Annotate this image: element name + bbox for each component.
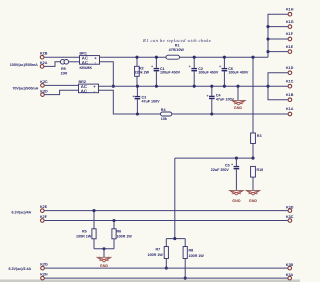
svg-text:GND: GND [234, 106, 243, 110]
node dot C4 top [210, 85, 213, 88]
connector K2C [40, 80, 48, 87]
connector K1H [286, 7, 294, 16]
heater rail 2 [44, 220, 287, 222]
connector K3A [286, 273, 294, 280]
ground below R5 R6 [97, 257, 111, 268]
wire divider node [175, 157, 253, 159]
node dot C1 top [155, 56, 158, 59]
wire stub K1E [268, 51, 288, 53]
node dot C1 bottom [155, 85, 158, 88]
node dot K1G [266, 25, 269, 28]
wire R3 to node [252, 144, 254, 159]
svg-text:K2C: K2C [40, 80, 48, 84]
svg-text:KBU8K: KBU8K [80, 66, 93, 70]
wire BR1+ to top rail left [100, 56, 167, 58]
wire node down to heater bias join [174, 158, 176, 239]
svg-text:K1F: K1F [286, 32, 294, 36]
wire bottom wire right to K1A [172, 113, 288, 115]
connector K1C [286, 79, 294, 88]
thermistor R9 [60, 60, 68, 76]
svg-text:22uF 350V: 22uF 350V [211, 168, 230, 172]
wire R7 R8 top join [166, 238, 185, 240]
svg-text:100uF 450V: 100uF 450V [160, 71, 181, 75]
svg-text:10R: 10R [61, 72, 68, 76]
node dot join [173, 237, 176, 240]
wire join to ground [103, 249, 105, 257]
svg-text:R3: R3 [257, 134, 262, 138]
heater rail 3 [45, 267, 288, 269]
svg-text:R8: R8 [189, 249, 194, 253]
node dot BR1- [112, 85, 115, 88]
svg-text:K2F: K2F [40, 215, 48, 219]
resistor R8 [183, 247, 204, 259]
node dot R5 top [92, 209, 95, 212]
wire stub K1F [268, 38, 288, 40]
wire R7 to rail3 [165, 259, 167, 269]
wire K2B to BR1 [44, 56, 79, 58]
resistor R1 [166, 43, 184, 59]
svg-text:K2B: K2B [40, 52, 48, 56]
svg-text:47R/10W: 47R/10W [169, 48, 185, 52]
wire top rail to R3 [252, 57, 254, 133]
resistor R2 [135, 57, 150, 86]
resistor R3 [251, 133, 262, 144]
connector K3C [286, 215, 294, 222]
connector K2E [40, 205, 48, 212]
wire mid rail [99, 85, 269, 87]
wire K2C to BR2 [45, 84, 79, 86]
svg-text:K2H: K2H [40, 273, 48, 277]
wire stub K1G [268, 26, 288, 28]
ground below C5 [230, 190, 244, 203]
svg-text:GND: GND [249, 199, 258, 203]
node dot R3 top [251, 56, 254, 59]
node dot C5 tap [235, 157, 238, 160]
connector K1D [286, 66, 294, 75]
svg-text:100uF 450V: 100uF 450V [198, 71, 219, 75]
svg-text:K3D: K3D [286, 205, 294, 209]
wire R10 to ground [252, 177, 254, 190]
wire stub K1C [268, 85, 288, 87]
node dot C3 top [136, 85, 139, 88]
svg-text:GND: GND [100, 264, 109, 268]
svg-text:100R 1W: 100R 1W [117, 234, 133, 238]
svg-text:R6: R6 [117, 230, 122, 234]
connector K2H [40, 273, 48, 280]
svg-text:+: + [189, 64, 191, 68]
connector K2F [40, 215, 48, 222]
svg-text:6.3V(ac)/4A: 6.3V(ac)/4A [12, 210, 32, 214]
wire BR2- down to bottom wire [99, 90, 161, 114]
node dot R8 bottom [184, 277, 187, 280]
svg-text:100R 1W: 100R 1W [189, 254, 205, 258]
connector K1B [286, 93, 294, 102]
connector K2D [40, 89, 48, 96]
svg-text:R1: R1 [175, 43, 180, 47]
bridge rectifier BR2 [79, 80, 99, 93]
resistor R7 [148, 247, 169, 259]
svg-text:47uF 100V: 47uF 100V [142, 100, 161, 104]
node dot C6 bottom [223, 85, 226, 88]
svg-text:R10: R10 [257, 168, 264, 172]
node dot R6 top [112, 219, 115, 222]
capacitor C4 [206, 86, 234, 114]
svg-text:+: + [206, 94, 208, 98]
svg-text:K3A: K3A [286, 273, 294, 277]
svg-text:K2A: K2A [40, 61, 48, 65]
wire BR1- down to mid rail [100, 62, 114, 86]
bridge rectifier BR1 [80, 52, 100, 70]
wire join to R8 [184, 239, 186, 247]
node dot C2 top [193, 56, 196, 59]
svg-text:100R 1W: 100R 1W [76, 234, 92, 238]
svg-text:K2E: K2E [40, 205, 48, 209]
svg-text:K3B: K3B [286, 263, 294, 267]
bottom gray strip [0, 280, 300, 282]
svg-text:K1B: K1B [286, 93, 294, 97]
node dot C3 bottom [136, 112, 139, 115]
svg-text:K1G: K1G [286, 20, 294, 24]
wire join to R7 [165, 239, 167, 247]
node dot R7 bottom [165, 267, 168, 270]
node dot C2 bottom [193, 85, 196, 88]
node dot K1E [266, 50, 269, 53]
right column mid group vertical wire [268, 73, 288, 100]
node dot K1C [266, 85, 269, 88]
connector K2B [40, 52, 48, 59]
wire K2D to BR2 [45, 90, 79, 94]
svg-text:R7: R7 [156, 248, 161, 252]
svg-text:K3C: K3C [286, 215, 294, 219]
svg-text:10k: 10k [161, 117, 168, 121]
svg-text:100uF 400V: 100uF 400V [228, 71, 249, 75]
node dot K1F [266, 37, 269, 40]
wire R8 to rail4 [184, 259, 186, 279]
svg-text:BR2: BR2 [79, 80, 86, 84]
connector K1A [286, 107, 294, 116]
svg-text:K1E: K1E [286, 45, 294, 49]
svg-text:+: + [151, 64, 153, 68]
right column top group vertical wire [268, 14, 288, 57]
connector K1E [286, 45, 294, 54]
ground below R10 [246, 190, 260, 203]
resistor R6 [112, 221, 132, 249]
svg-text:K1D: K1D [286, 66, 294, 70]
node dot C4 bottom [210, 112, 213, 115]
wire K2A to R9 [44, 62, 60, 67]
connector K1F [286, 32, 294, 41]
svg-text:100R 1W: 100R 1W [148, 253, 164, 257]
capacitor C1 [151, 57, 181, 86]
svg-text:AC: AC [81, 88, 87, 93]
connector K2G [40, 263, 48, 270]
resistor R4 [161, 108, 172, 121]
svg-text:BR1: BR1 [80, 52, 87, 56]
svg-text:C5: C5 [225, 163, 230, 167]
svg-text:+: + [219, 64, 221, 68]
node dot C6 top [223, 56, 226, 59]
svg-text:K2G: K2G [40, 263, 48, 267]
svg-text:R1 can be replaced with choke: R1 can be replaced with choke [142, 38, 211, 43]
svg-text:+: + [231, 162, 233, 166]
resistor R5 [76, 211, 96, 249]
connector K3D [286, 205, 294, 212]
capacitor C5 [211, 158, 239, 190]
svg-text:70V(ac)/500mA: 70V(ac)/500mA [12, 87, 38, 91]
node dot join R5R6 [102, 247, 105, 250]
svg-text:K1C: K1C [286, 79, 294, 83]
ground on mid rail [232, 86, 246, 110]
resistor R10 [251, 166, 264, 177]
svg-text:+: + [132, 94, 134, 98]
wire R9 to BR1 [68, 61, 79, 63]
capacitor C6 [219, 57, 249, 86]
heater rail 4 [45, 277, 288, 279]
wire R5 R6 bottom join [94, 248, 114, 250]
connector K2A [40, 61, 48, 68]
heater rail 1 [44, 210, 287, 212]
svg-text:K1H: K1H [286, 7, 294, 11]
svg-text:GND: GND [232, 199, 241, 203]
svg-text:AC: AC [82, 60, 88, 65]
svg-text:K2D: K2D [40, 89, 48, 93]
connector K1G [286, 20, 294, 29]
capacitor C2 [189, 57, 219, 86]
capacitor C3 [132, 86, 160, 114]
node dot R2 top [135, 56, 138, 59]
svg-text:6.3V(ac)/2.4A: 6.3V(ac)/2.4A [8, 267, 31, 271]
svg-text:R5: R5 [82, 230, 87, 234]
svg-text:K1A: K1A [286, 107, 294, 111]
node dot divider [251, 157, 254, 160]
svg-text:100V(ac)/500mA: 100V(ac)/500mA [10, 63, 38, 67]
wire top rail right [180, 56, 269, 58]
svg-text:220k 2W: 220k 2W [135, 71, 150, 75]
connector K3B [286, 263, 294, 270]
node dot gnd stub [236, 85, 239, 88]
